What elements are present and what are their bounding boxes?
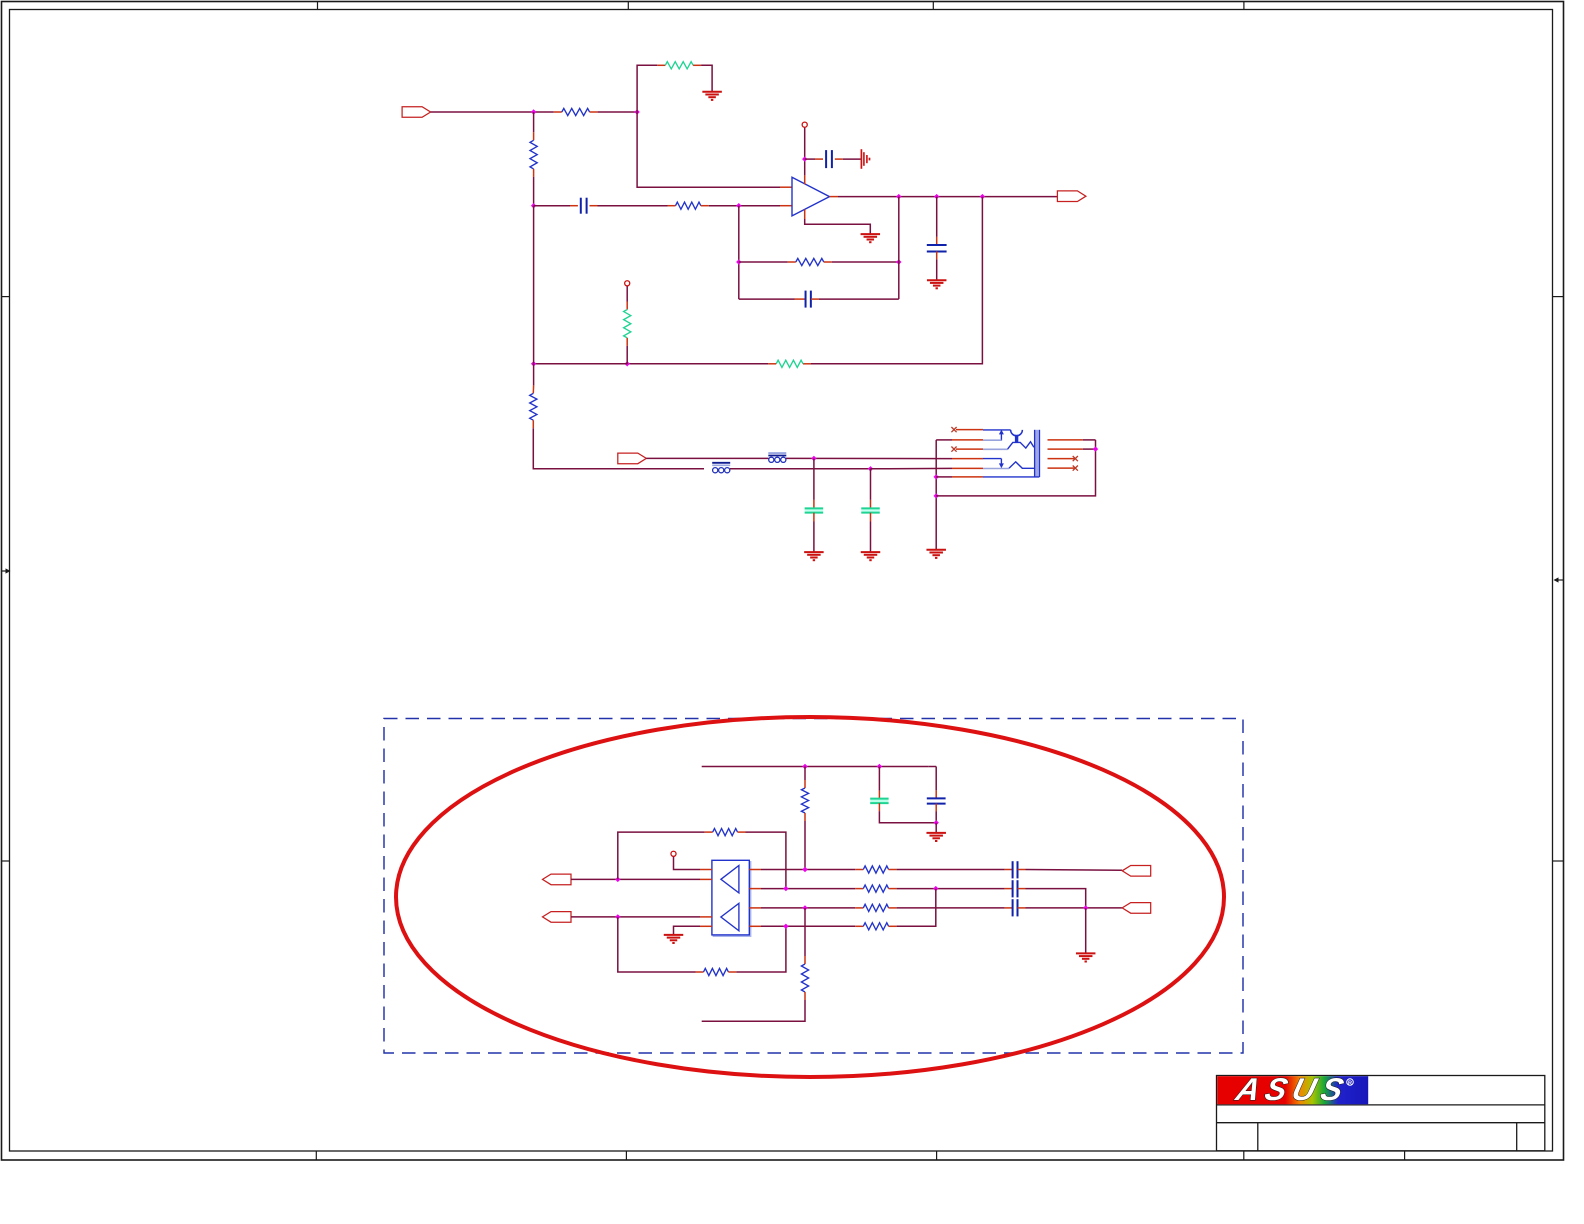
jack J4 pin3 stub xyxy=(956,448,983,450)
jack J4 right pinC no-connect X xyxy=(1073,456,1078,461)
node F2 junction xyxy=(896,259,901,264)
wire R5 to node J xyxy=(627,363,776,365)
wire C11 to connector J8 xyxy=(1018,907,1123,909)
ground G6 xyxy=(926,550,946,558)
node B junction xyxy=(634,109,639,114)
wire TP3 to U2 pin xyxy=(674,857,712,870)
wire R4 to node F2 xyxy=(824,261,899,263)
wire C1 to R3 xyxy=(590,205,676,207)
resistor R9 xyxy=(863,866,888,873)
wire U2 out2 to line2 xyxy=(749,888,863,890)
wire FB1 to jack row xyxy=(730,468,871,470)
resistor R15 xyxy=(801,964,808,992)
wire U2 ground pin xyxy=(674,926,712,935)
capacitor C10 xyxy=(1013,880,1018,897)
ground G8 xyxy=(664,935,684,943)
jack J4 body xyxy=(1035,430,1040,477)
ground G5 xyxy=(861,552,881,560)
node G junction xyxy=(934,194,939,199)
capacitor C9 xyxy=(1013,861,1018,878)
test point TP2 xyxy=(625,281,630,286)
wire R16 to ground xyxy=(693,65,712,92)
jack J4 pin2 contact line xyxy=(983,439,1001,441)
ASUS logo xyxy=(1217,1071,1368,1106)
wire J5 to U2 input xyxy=(571,878,712,880)
wire top rail corner down to C7 xyxy=(935,767,937,799)
capacitor C3 xyxy=(826,150,832,168)
buffer U2B xyxy=(721,903,739,931)
wire J1 to node A xyxy=(431,111,534,113)
op-amp U1 xyxy=(792,177,830,216)
wire R7 down to bottom row xyxy=(533,420,704,469)
jack J4 pin6 stub xyxy=(936,476,983,478)
wire node Q down to R8 xyxy=(804,767,806,789)
ferrite bead FB1 xyxy=(712,463,730,473)
jack J4 sleeve switch arrow down xyxy=(999,459,1004,469)
wire R10 to C10 xyxy=(889,888,1013,890)
node J junction xyxy=(625,361,630,366)
capacitor C2 feedback xyxy=(806,291,811,308)
wire node J to node K xyxy=(534,363,628,365)
feedback wire top right xyxy=(738,832,786,889)
wire R3 to node D and op-amp -input xyxy=(701,205,792,207)
resistor R6 xyxy=(624,310,631,338)
resistor R11 xyxy=(863,904,888,911)
border zone ticks right xyxy=(1553,297,1563,861)
wire R11 to C11 xyxy=(889,907,1013,909)
wire U2 out3 to line3 xyxy=(749,907,863,909)
connector J3 line input xyxy=(618,453,647,464)
border zone ticks top xyxy=(318,2,1244,10)
wire feedback right vertical xyxy=(898,197,900,300)
jack J4 pin3 no-connect X xyxy=(951,447,956,452)
node Q junction xyxy=(802,764,807,769)
capacitor C1 xyxy=(581,198,587,214)
resistor R10 xyxy=(863,885,888,892)
node M junction xyxy=(811,456,816,461)
test point TP3 xyxy=(671,851,676,856)
wire node A down to R1 xyxy=(533,112,535,140)
jack J4 pin2 stub xyxy=(936,439,983,441)
buffer U2A xyxy=(721,866,739,893)
jack J4 right pinB stub xyxy=(1048,448,1096,450)
wire J3 to FB2 xyxy=(646,457,768,459)
node T junction xyxy=(802,867,807,872)
wire C10 right then down xyxy=(1018,889,1086,908)
node D junction xyxy=(736,203,741,208)
capacitor C7 xyxy=(927,798,946,803)
jack J4 tip contact xyxy=(1011,430,1023,443)
wire U2 out4 to line4 xyxy=(749,925,863,927)
ground G1 xyxy=(702,92,722,100)
resistor R2 xyxy=(562,108,590,115)
resistor R4 feedback xyxy=(796,258,824,265)
node L junction xyxy=(868,466,873,471)
node O junction xyxy=(934,493,939,498)
wire node H down to bus xyxy=(803,197,982,364)
wire C2 to right vertical xyxy=(811,298,899,300)
wire node C down to node K xyxy=(533,206,535,364)
resistor R14 xyxy=(704,968,729,975)
capacitor C4 xyxy=(927,245,947,252)
node A junction xyxy=(531,109,536,114)
capacitor C8 xyxy=(870,799,888,804)
wire C3 to chassis ground xyxy=(835,158,861,160)
connector J2 audio output xyxy=(1057,191,1086,202)
wire node D down feedback left xyxy=(738,206,740,299)
wire node L down to C6 xyxy=(870,469,872,509)
wire node K down to R7 xyxy=(532,364,534,394)
jack J4 ring switch contact xyxy=(983,442,1034,450)
wire R9 to C9 xyxy=(889,869,1013,871)
node U junction xyxy=(615,877,620,882)
wire R2 to node B xyxy=(590,111,638,113)
feedback wire top left xyxy=(618,832,713,879)
wire bottom feedback to C2 xyxy=(739,298,806,300)
node H junction xyxy=(980,194,985,199)
capacitor C5 xyxy=(805,508,824,512)
node Z junction xyxy=(1083,905,1088,910)
resistor R5 xyxy=(776,360,803,367)
feedback wire bottom left xyxy=(618,917,704,972)
wire J6 to U2 input xyxy=(571,916,712,918)
connector J6 left output xyxy=(543,912,572,923)
resistor R7 xyxy=(530,393,537,420)
ground G2 xyxy=(861,234,881,242)
node C junction xyxy=(531,203,536,208)
wire C9 to connector J7 xyxy=(1018,869,1123,872)
connector J5 left output xyxy=(543,874,572,885)
jack J4 pin6 contact line xyxy=(983,476,1039,478)
border center arrow left xyxy=(2,568,11,573)
wire R15 to lower rail xyxy=(702,992,805,1021)
border center arrow right xyxy=(1554,577,1564,582)
wire FB2 to jack pin4 xyxy=(786,457,983,459)
ground G4 xyxy=(804,552,824,560)
connector J7 right input xyxy=(1122,866,1151,877)
wire node S to ground xyxy=(935,823,937,833)
chassis ground SG1 xyxy=(861,149,869,169)
title block frame xyxy=(1217,1076,1545,1151)
capacitor C6 xyxy=(861,508,880,512)
node P junction xyxy=(1093,446,1098,451)
node Y junction xyxy=(802,905,807,910)
node V junction xyxy=(615,914,620,919)
wire node B down to op-amp +input xyxy=(637,112,792,187)
wire jack left vertical xyxy=(935,440,937,550)
wire node G down to C4 xyxy=(936,197,938,245)
wire node R down to C8 xyxy=(878,767,880,799)
connector J1 audio input xyxy=(402,107,431,118)
wire node C to C1 xyxy=(534,205,578,207)
wire jack right vertical xyxy=(936,440,1095,496)
wire node A to R2 xyxy=(534,111,562,113)
wire R6 to node J xyxy=(626,338,628,364)
jack J4 pin1 contact line xyxy=(983,429,1011,431)
resistor R12 xyxy=(863,923,888,930)
jack J4 right pinC stub xyxy=(1048,458,1076,460)
jack J4 pin1 stub xyxy=(956,429,983,431)
jack J4 right pinD stub xyxy=(1048,467,1076,469)
capacitor C11 xyxy=(1013,899,1018,916)
wire op-amp output to connector xyxy=(830,196,1058,198)
wire TP2 to R6 xyxy=(626,286,628,309)
node X junction xyxy=(933,886,938,891)
wire C5 to ground xyxy=(813,513,815,552)
wire C4 to ground xyxy=(936,251,938,280)
node K junction xyxy=(531,361,536,366)
ground G9 xyxy=(1076,953,1096,961)
node AA junction xyxy=(783,924,788,929)
node W junction xyxy=(783,886,788,891)
node S junction xyxy=(934,820,939,825)
node R junction xyxy=(877,764,882,769)
wire R12 up to node X xyxy=(889,889,936,927)
op-amp U1 power pin wire xyxy=(804,128,806,185)
resistor R8 xyxy=(801,788,808,813)
op-amp block U2 xyxy=(712,860,751,936)
jack J4 pin4 contact line xyxy=(983,458,1001,460)
wire node Z down to ground xyxy=(1085,908,1087,954)
jack J4 right pinD no-connect X xyxy=(1073,466,1078,471)
wire node Y down to R15 xyxy=(804,908,806,964)
wire node L to jack pin5 xyxy=(871,467,984,469)
wire node M down to C5 xyxy=(813,458,815,508)
resistor R13 xyxy=(713,829,738,836)
wire node E to C3 xyxy=(805,158,823,160)
op-amp U1 negative supply wire to ground xyxy=(805,210,871,235)
resistor R16 xyxy=(665,62,693,69)
jack J4 pin1 no-connect X xyxy=(951,427,956,432)
feedback wire bottom right xyxy=(728,926,786,972)
wire C7 down to node S xyxy=(935,804,937,823)
wire C8 down to node S xyxy=(879,803,936,823)
resistor R1 xyxy=(530,140,537,169)
border zone ticks bottom xyxy=(316,1151,1404,1160)
wire node D2 to R4 xyxy=(739,261,796,263)
jack J4 pin5 contact line xyxy=(983,462,1035,469)
wire R8 down to node T xyxy=(804,813,806,870)
connector J8 right input xyxy=(1122,903,1151,914)
wire R1 to node C xyxy=(533,169,535,206)
wire node B up to R16 xyxy=(637,65,665,112)
optional circuit dashed outline xyxy=(384,719,1243,1054)
emphasis ellipse xyxy=(396,717,1224,1077)
wire lower top rail xyxy=(702,766,937,768)
node E junction on power pin xyxy=(802,156,807,161)
svg-text:R: R xyxy=(1348,1081,1352,1087)
ferrite bead FB2 xyxy=(768,453,786,462)
border zone ticks left xyxy=(2,297,10,861)
svg-text:ASUS: ASUS xyxy=(1232,1071,1353,1106)
node N junction xyxy=(934,474,939,479)
power test point TP1 xyxy=(802,122,807,127)
jack J4 tip switch arrow up xyxy=(999,430,1004,441)
jack J4 right pinA stub xyxy=(1048,439,1096,441)
node F junction xyxy=(896,194,901,199)
ground G7 xyxy=(926,833,946,841)
wire U2 out1 to line1 xyxy=(749,869,863,871)
wire C6 to ground xyxy=(870,513,872,552)
ground G3 xyxy=(927,280,947,288)
resistor R3 xyxy=(676,202,701,209)
node D2 junction xyxy=(736,259,741,264)
